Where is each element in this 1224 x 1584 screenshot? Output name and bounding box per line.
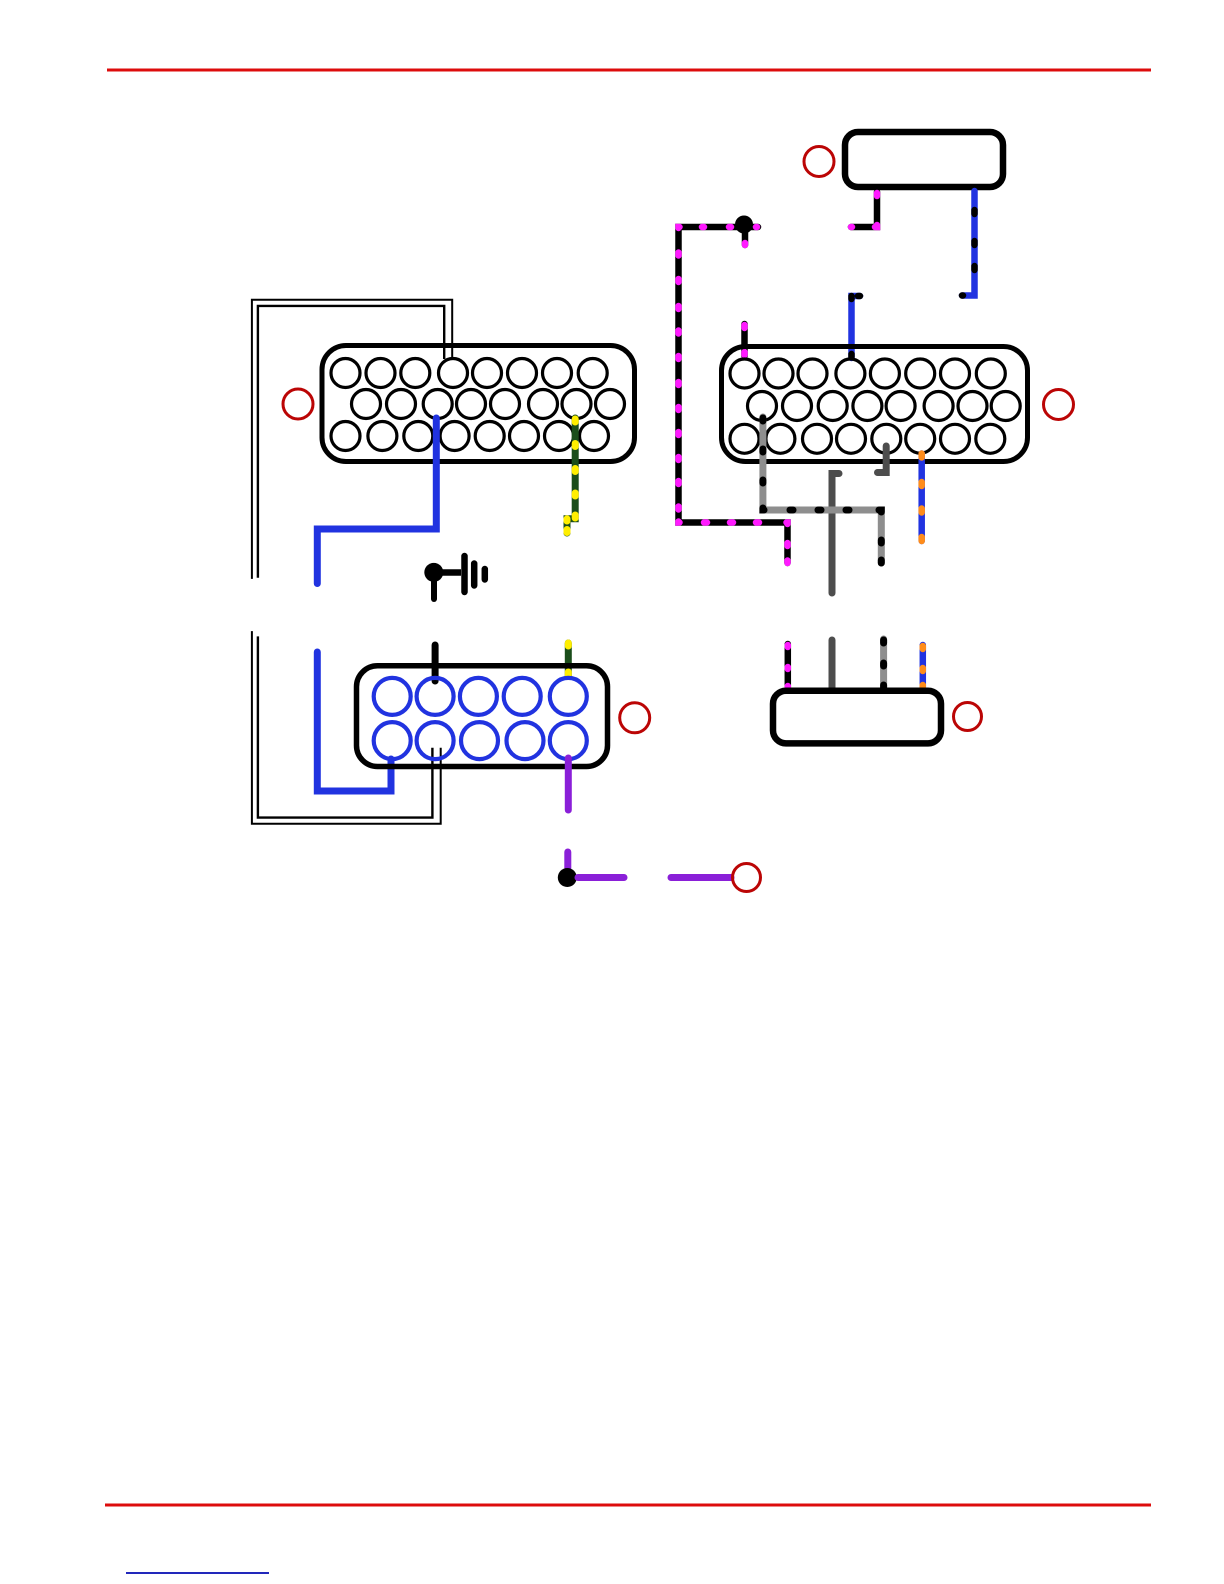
shield pair inner line [258,306,444,818]
wire B2 lead1 BK/MG [785,644,792,690]
wire B1 pin2 BU/BK: down then left [962,191,975,296]
ground G1 [424,556,485,599]
wire B2 lead3 GY/BK [880,639,887,690]
callout circle B [1044,390,1074,420]
callout circle F [733,864,761,892]
wire C2 pin21 DG J-hook [878,446,887,473]
footer rule [105,1504,1151,1507]
wire B2 lead4 BU/OG [920,645,927,690]
component box B2 (bottom right) [773,691,941,744]
connector C3 (bottom 10-pin) [357,666,608,767]
wire B1 pin1 BK/MG: down then left [851,192,877,227]
wire C2 pin4 BU/BK elbow into connector [852,296,861,358]
callout circle E [620,703,650,733]
junction node J2 [558,868,577,887]
wire C3 pin10 VT drop [565,758,572,810]
callout circle C [283,389,313,419]
wire C1 pin11 BU: down, left, down [317,418,436,584]
wire C2 pin1 MG/BK entering top [741,324,748,356]
wire B2 lead2 DG [829,640,836,690]
wire DG long drop [832,474,839,594]
wire C2 pin22 BU/OG drop [918,454,925,542]
callout circle A [804,147,834,177]
wire C2 pin9 GY/BK: down, right, down [763,417,881,563]
header rule [107,69,1151,72]
shield pair outer line [252,300,452,824]
wire VT to callout F [671,874,731,881]
wire BU U-run to C3 pin6 [317,652,391,791]
wire VT stub above J2 [564,852,571,868]
footer link underline [126,1572,269,1574]
connector C1 (left 24-pin) [322,346,635,462]
callout circle D [954,703,982,731]
wire BK/MG long: right of junction, down left side, to stub [679,227,788,563]
junction node J1 [735,216,753,234]
wire C3 pin5 GN/YE stub [565,643,572,676]
wire C3 pin2 BK stub [432,645,439,681]
stub below J1 MG cap [742,231,749,245]
connector C2 (right 24-pin) [722,347,1028,462]
wire C1 pin15 GN/YE: drop with jog [567,418,575,533]
component box B1 (top right) [845,132,1003,187]
wire VT right of J2 [578,874,624,881]
